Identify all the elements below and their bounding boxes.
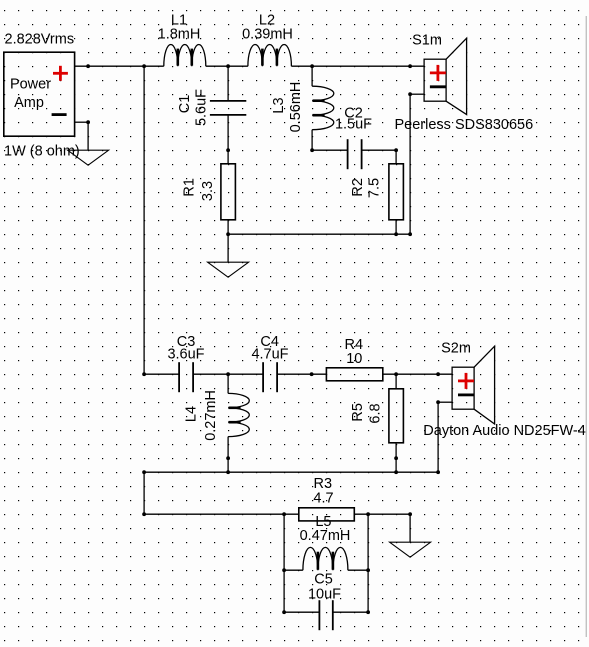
svg-text:C5: C5 [314, 572, 333, 588]
svg-text:4.7uF: 4.7uF [251, 347, 288, 363]
capacitor C4 [263, 362, 277, 392]
speaker S1m [424, 38, 467, 114]
node C1 branch [226, 64, 230, 68]
wire L5 left leg [283, 514, 285, 612]
inductor L5 [303, 547, 348, 570]
svg-text:0.56mH: 0.56mH [288, 82, 304, 133]
tweeter rail: wire feed to C3 [144, 373, 179, 375]
wire amp+ to L1 [75, 65, 164, 67]
svg-text:6.8: 6.8 [368, 403, 384, 423]
notch rail: wire to R3 [144, 513, 299, 515]
ground 1 [68, 150, 109, 165]
wire L4 bottom [227, 437, 229, 473]
wire R5 bottom [395, 443, 397, 472]
node rail R1 [226, 232, 230, 236]
node R3 left [282, 512, 286, 516]
wire C2 to R2 [362, 149, 397, 151]
svg-text:S1m: S1m [412, 33, 442, 49]
wire L3 to C2 [312, 149, 348, 151]
resistor R2 [389, 164, 404, 220]
svg-text:0.39mH: 0.39mH [242, 27, 293, 43]
node S1m- corner [408, 92, 412, 96]
tweeter return rail [144, 471, 438, 473]
svg-text:R1: R1 [182, 178, 198, 197]
wire R4 to S2m [383, 373, 452, 375]
node L4 end [226, 456, 230, 460]
node S2m+ [436, 372, 440, 376]
svg-text:Power: Power [10, 76, 51, 92]
node C5 right [366, 610, 370, 614]
wire C5 right [333, 611, 368, 613]
wire C4 to R4 [277, 373, 326, 375]
wire to ground 1 [87, 122, 89, 150]
wire R2 to rail [395, 220, 397, 234]
svg-text:R2: R2 [350, 178, 366, 197]
node rail S2m- [436, 470, 440, 474]
svg-text:Peerless SDS830656: Peerless SDS830656 [395, 117, 534, 133]
svg-text:1W (8 ohm): 1W (8 ohm) [4, 144, 80, 160]
wire L2 to speaker S1m [291, 65, 424, 67]
wire C3 to C4 [193, 373, 263, 375]
resistor R5 [389, 389, 404, 443]
inductor L4 [228, 393, 249, 436]
svg-text:10uF: 10uF [308, 587, 341, 603]
node gnd3 corner [408, 512, 412, 516]
svg-text:0.47mH: 0.47mH [300, 528, 351, 544]
svg-text:L4: L4 [184, 406, 200, 422]
window edge line [585, 16, 587, 637]
svg-text:3.6uF: 3.6uF [167, 347, 204, 363]
wire R5 top [395, 374, 397, 389]
node rail left [142, 470, 146, 474]
node S2m- corner [436, 400, 440, 404]
wire S2m- [438, 401, 452, 403]
wire amp- out [75, 121, 89, 123]
node L3-C2 [310, 148, 314, 152]
wire C1 to R1 [227, 115, 229, 164]
node S1m+ [408, 64, 412, 68]
node C1-R1 [226, 148, 230, 152]
node rail S1m- [408, 232, 412, 236]
node L5 left [282, 568, 286, 572]
node on top rail [86, 64, 90, 68]
wire S1m- down to rail [409, 94, 411, 234]
capacitor C2 [348, 139, 362, 169]
svg-text:S2m: S2m [441, 341, 471, 357]
svg-text:7.5: 7.5 [367, 178, 383, 198]
wire S1m- [410, 93, 424, 95]
wire L5 right stub [348, 569, 368, 571]
capacitor C5 [319, 600, 332, 630]
node rail R5 [394, 470, 398, 474]
svg-text:2.828Vrms: 2.828Vrms [5, 32, 75, 48]
node R5 end [394, 456, 398, 460]
woofer bottom rail [228, 233, 410, 235]
svg-text:Dayton Audio ND25FW-4: Dayton Audio ND25FW-4 [423, 423, 586, 439]
node C4-R4 [310, 372, 314, 376]
wire L3 bottom [311, 130, 313, 151]
wire L5 left stub [284, 569, 303, 571]
wire L4 top [227, 374, 229, 393]
node L5 right [366, 568, 370, 572]
inductor L3 [312, 86, 334, 130]
svg-text:Amp: Amp [14, 95, 44, 111]
node feed tweeter [142, 372, 146, 376]
node L4 branch [226, 372, 230, 376]
svg-text:1.5uF: 1.5uF [335, 117, 372, 133]
wire R1 to rail [227, 220, 229, 234]
ground 3 [390, 542, 431, 557]
inductor L1 [164, 44, 206, 66]
node notch left corner [142, 512, 146, 516]
wire S2m- down [437, 402, 439, 472]
wire L1 to L2 [206, 65, 248, 67]
svg-text:10: 10 [346, 351, 362, 367]
resistor R1 [221, 164, 236, 220]
wire to ground 3 [409, 514, 411, 542]
capacitor C1 [210, 101, 246, 115]
svg-text:0.27mH: 0.27mH [203, 390, 219, 441]
svg-text:C1: C1 [177, 95, 193, 114]
svg-text:R5: R5 [350, 403, 366, 422]
speaker S2m [452, 346, 495, 424]
source V1 Power Amp box [4, 52, 75, 136]
wire R2 top [395, 150, 397, 164]
wire feed down to tweeter rail [143, 66, 145, 374]
svg-text:L3: L3 [271, 97, 287, 113]
svg-text:3.3: 3.3 [200, 181, 216, 201]
wire C1 top [227, 66, 229, 101]
node C2-R2 [394, 148, 398, 152]
node rail R2 [394, 232, 398, 236]
wire R3 right [354, 513, 410, 515]
wire to ground 2 [227, 234, 229, 262]
svg-text:1.8mH: 1.8mH [158, 27, 201, 43]
inductor L2 [248, 44, 292, 66]
wire rail drop left [143, 472, 145, 514]
node feed branch [142, 64, 146, 68]
resistor R4 [326, 368, 382, 381]
node R3 right [366, 512, 370, 516]
wire L3 top [311, 66, 313, 86]
ground 2 [208, 262, 249, 277]
svg-text:4.7: 4.7 [313, 491, 333, 507]
node rail L4 [226, 470, 230, 474]
node L3 branch [310, 64, 314, 68]
wire C5 left [284, 611, 319, 613]
node R5 branch [394, 372, 398, 376]
node C5 left [282, 610, 286, 614]
wire L5 right leg [367, 514, 369, 612]
resistor R3 [299, 508, 355, 521]
capacitor C3 [179, 362, 193, 392]
node amp- [86, 120, 90, 124]
svg-text:5.6uF: 5.6uF [194, 89, 210, 126]
